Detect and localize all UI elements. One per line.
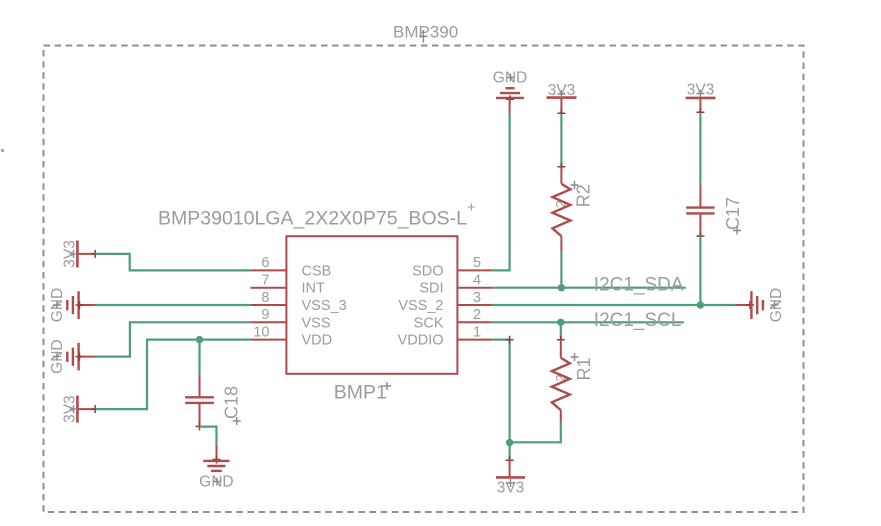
wire R1 bottom to VDDIO net	[510, 422, 561, 443]
title origin cross	[419, 30, 427, 43]
svg-text:SDI: SDI	[419, 281, 443, 297]
junction node VDD/C18	[196, 336, 203, 343]
svg-text:VSS: VSS	[302, 315, 331, 331]
svg-text:6: 6	[261, 255, 269, 271]
wire net VSS: GND to pin 9	[96, 322, 251, 356]
junction node R2/SDA	[558, 284, 565, 291]
wire net I2C1_SCL	[493, 321, 684, 323]
wire net VDD: 3V3 to pin 10	[96, 340, 251, 410]
svg-text:8: 8	[261, 290, 269, 306]
IC BMP1 body	[286, 236, 457, 374]
wire 3V3 to R2	[560, 114, 562, 167]
frame dashed border	[44, 46, 804, 513]
wire net VSS_2 to right GND	[493, 304, 735, 306]
edge speck	[1, 149, 4, 152]
svg-text:VDD: VDD	[302, 333, 333, 349]
wire net CSB: 3V3 to pin 6	[96, 254, 251, 271]
svg-text:INT: INT	[302, 281, 326, 297]
ground GND right symbol	[735, 291, 763, 319]
supply 3V3 above R2	[547, 98, 577, 118]
svg-text:3: 3	[473, 290, 481, 306]
resistor R2	[552, 167, 570, 252]
junction node VDDIO/R1	[506, 439, 513, 446]
pin 4 SDI stub	[457, 287, 492, 289]
pin 1 VDDIO stub	[457, 339, 492, 341]
ground GND left-2 symbol	[67, 343, 95, 371]
wire net I2C1_SDA	[493, 287, 686, 289]
svg-text:2: 2	[473, 307, 481, 323]
wire 3V3 to C17	[699, 113, 701, 185]
wire R2 to SDA net	[560, 251, 562, 287]
svg-text:R2: R2	[574, 184, 594, 207]
resistor R1	[552, 340, 570, 422]
capacitor C18	[185, 374, 214, 430]
svg-text:+: +	[467, 199, 476, 216]
supply 3V3 bottom-left symbol	[77, 396, 99, 423]
svg-text:1: 1	[473, 324, 481, 340]
wire C17 to VSS_2 net	[699, 236, 701, 305]
pin 8 VSS_3 stub	[250, 304, 286, 306]
supply 3V3 top-left symbol	[77, 240, 99, 267]
junction node C17/VSS_2	[697, 301, 704, 308]
svg-text:SDO: SDO	[412, 263, 443, 279]
ground GND top symbol	[496, 88, 524, 114]
svg-text:10: 10	[253, 324, 269, 340]
supply 3V3 bottom symbol	[496, 456, 525, 477]
capacitor C17	[686, 184, 714, 240]
svg-text:5: 5	[473, 255, 481, 271]
svg-text:C17: C17	[723, 197, 743, 230]
svg-text:BMP390: BMP390	[393, 23, 458, 42]
pin 10 VDD stub	[250, 339, 286, 341]
pin 9 VSS stub	[250, 321, 286, 323]
svg-text:CSB: CSB	[302, 263, 332, 279]
svg-text:SCK: SCK	[414, 315, 444, 331]
ground GND below C18	[203, 446, 229, 471]
svg-text:BMP1: BMP1	[334, 382, 387, 404]
svg-text:VSS_3: VSS_3	[302, 298, 347, 314]
svg-text:7: 7	[261, 273, 269, 289]
wire SCL to R1	[560, 322, 562, 340]
wire net SDO: pin 5 to GND top	[493, 114, 510, 271]
supply 3V3 above C17	[686, 98, 716, 116]
svg-text:R1: R1	[574, 357, 594, 380]
wire net VDDIO: pin 1 down to 3V3	[493, 340, 510, 460]
wire net VSS_3: GND to pin 8	[96, 304, 251, 306]
pin 7 INT stub	[250, 287, 286, 289]
pin 3 VSS_2 stub	[457, 304, 492, 306]
pin 6 CSB stub	[250, 269, 286, 271]
svg-text:4: 4	[473, 273, 481, 289]
svg-text:I2C1_SDA: I2C1_SDA	[594, 275, 684, 296]
ground GND left-1 symbol	[67, 291, 95, 319]
svg-text:9: 9	[261, 307, 269, 323]
pin 5 SDO stub	[457, 269, 492, 271]
svg-text:I2C1_SCL: I2C1_SCL	[594, 310, 682, 331]
svg-text:VDDIO: VDDIO	[398, 333, 444, 349]
junction node R1/SCL	[557, 319, 564, 326]
wire VDD branch to C18	[198, 340, 200, 375]
svg-text:VSS_2: VSS_2	[398, 298, 443, 314]
wire C18 to GND	[200, 427, 217, 446]
svg-text:BMP39010LGA_2X2X0P75_BOS-L: BMP39010LGA_2X2X0P75_BOS-L	[158, 208, 467, 230]
pin 2 SCK stub	[457, 321, 492, 323]
svg-text:C18: C18	[222, 386, 242, 419]
